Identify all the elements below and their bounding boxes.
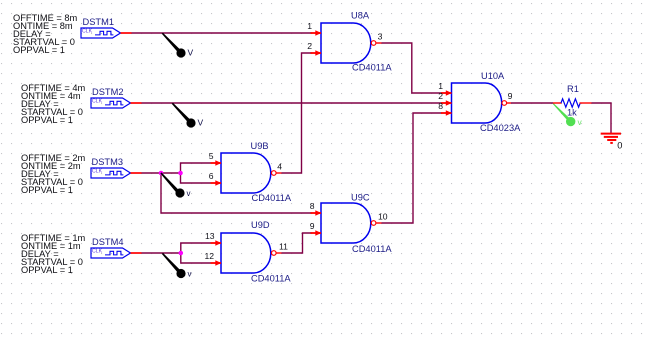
svg-text:4: 4 <box>277 162 282 172</box>
svg-text:13: 13 <box>205 231 215 241</box>
DSTM1 parameters text <box>13 13 78 55</box>
voltage probe V on DSTM2 wire <box>172 103 204 128</box>
svg-text:CLK: CLK <box>82 29 93 35</box>
svg-text:CD4011A: CD4011A <box>251 274 291 284</box>
wire U10A output to R1 <box>511 102 553 104</box>
svg-text:8: 8 <box>310 201 315 211</box>
DSTM4 parameters text <box>21 233 86 275</box>
wire DSTM2 output to U10A pin 2 <box>142 102 442 104</box>
wire U8A output to U10A pin 1 <box>382 43 442 93</box>
wire DSTM3 output to junction A <box>142 172 162 174</box>
svg-text:11: 11 <box>279 242 288 252</box>
svg-text:2: 2 <box>438 91 443 101</box>
NAND gate U9C body <box>321 203 371 243</box>
wire junction C tee to U9D pins 13 and 12 <box>181 243 211 263</box>
svg-text:DSTM4: DSTM4 <box>92 237 124 247</box>
svg-text:CD4023A: CD4023A <box>480 123 521 133</box>
svg-text:CLK: CLK <box>92 169 103 175</box>
U9C pin 9 stub and arrow <box>311 230 322 235</box>
U9D pin 13 stub and arrow <box>211 240 222 245</box>
3-input NAND gate U10A body <box>452 83 502 123</box>
svg-text:U9B: U9B <box>251 141 269 151</box>
svg-text:3: 3 <box>378 32 383 42</box>
svg-text:U10A: U10A <box>481 71 505 81</box>
svg-text:9: 9 <box>310 221 315 231</box>
svg-text:OPPVAL = 1: OPPVAL = 1 <box>21 265 73 275</box>
junction C <box>179 251 184 256</box>
svg-text:OPPVAL = 1: OPPVAL = 1 <box>21 185 73 195</box>
svg-text:U9D: U9D <box>251 220 270 230</box>
wire R1 to ground 0 <box>592 103 612 134</box>
svg-text:12: 12 <box>204 251 214 261</box>
svg-text:v: v <box>187 189 191 198</box>
wire junction A down and across to U9C pin 8 <box>161 173 312 213</box>
DSTM2 parameters text <box>21 83 86 125</box>
svg-text:OPPVAL = 1: OPPVAL = 1 <box>13 45 65 55</box>
svg-text:2: 2 <box>307 41 312 51</box>
U8A pin 1 stub and arrow <box>311 30 322 35</box>
wire DSTM1 output to U8A pin 1 <box>132 32 312 34</box>
junction A <box>159 171 164 176</box>
svg-text:V: V <box>188 48 194 58</box>
svg-text:DSTM1: DSTM1 <box>83 17 115 27</box>
U9B pin 5 stub and arrow <box>211 160 222 165</box>
svg-text:1: 1 <box>438 81 443 91</box>
wire U9B output to U8A pin 2 <box>282 53 312 173</box>
junction B <box>178 171 183 176</box>
svg-text:v: v <box>188 270 192 279</box>
svg-text:8: 8 <box>438 101 443 111</box>
DSTM3 parameters text <box>21 153 86 195</box>
voltage probe v on DSTM4 wire <box>162 253 192 279</box>
U9C pin 8 stub and arrow <box>311 210 322 215</box>
svg-text:DSTM3: DSTM3 <box>92 157 124 167</box>
svg-text:9: 9 <box>508 91 513 101</box>
U10A output bubble pin 9 <box>502 101 511 106</box>
svg-text:CD4011A: CD4011A <box>352 62 392 72</box>
digital stimulus DSTM4 <box>91 248 142 258</box>
svg-text:1k: 1k <box>567 107 577 117</box>
svg-text:R1: R1 <box>567 84 579 94</box>
U9B pin 6 stub and arrow <box>211 180 222 185</box>
svg-text:OPPVAL = 1: OPPVAL = 1 <box>21 115 73 125</box>
NAND gate U9B body <box>221 153 271 193</box>
digital stimulus DSTM3 <box>91 168 142 178</box>
ground 0 symbol <box>601 134 621 143</box>
U9B output bubble pin 4 <box>272 171 282 176</box>
U10A pin 2 stub and arrow <box>441 100 452 105</box>
svg-text:CLK: CLK <box>92 99 103 105</box>
svg-text:1: 1 <box>307 21 312 31</box>
svg-text:0: 0 <box>617 140 622 150</box>
svg-text:U8A: U8A <box>351 11 370 21</box>
svg-text:DSTM2: DSTM2 <box>92 87 124 97</box>
voltage probe V on DSTM1 wire <box>162 33 194 58</box>
NAND gate U9D body <box>221 233 271 273</box>
wire junction A to junction B <box>161 172 181 174</box>
wire U9C output to U10A pin 8 <box>382 113 442 223</box>
svg-text:V: V <box>198 118 204 128</box>
voltage probe v (green) on R1 node <box>553 103 583 127</box>
svg-text:6: 6 <box>209 171 214 181</box>
digital stimulus DSTM2 <box>91 98 142 108</box>
U9D output bubble pin 11 <box>272 251 282 256</box>
U8A output bubble pin 3 <box>371 41 381 46</box>
U9D pin 12 stub and arrow <box>211 260 222 265</box>
svg-text:CLK: CLK <box>92 249 103 255</box>
U8A pin 2 stub and arrow <box>311 50 322 55</box>
svg-text:5: 5 <box>209 151 214 161</box>
U10A pin 1 stub and arrow <box>441 90 452 95</box>
wire DSTM4 output to junction C <box>142 252 181 254</box>
svg-text:CD4011A: CD4011A <box>352 244 392 254</box>
NAND gate U8A body <box>321 23 371 63</box>
svg-text:CD4011A: CD4011A <box>252 193 292 203</box>
wire U9D output to U9C pin 9 <box>282 233 312 253</box>
U10A pin 8 stub and arrow <box>441 110 452 115</box>
digital stimulus DSTM1 <box>81 28 132 38</box>
wire junction B tee to U9B pins 5 and 6 <box>181 163 211 183</box>
U9C output bubble pin 10 <box>371 221 381 226</box>
resistor R1 <box>553 99 592 107</box>
voltage probe v on DSTM3 wire <box>160 172 190 198</box>
svg-text:10: 10 <box>378 212 388 222</box>
svg-text:U9C: U9C <box>351 192 370 202</box>
